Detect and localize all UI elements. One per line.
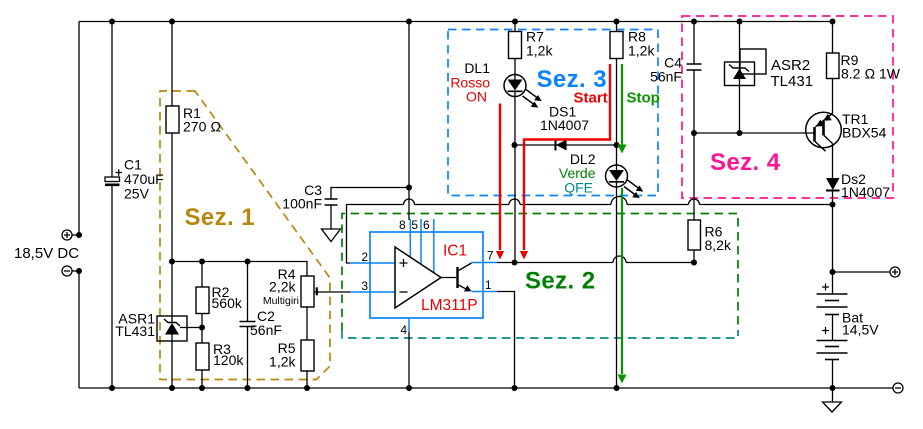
- svg-text:ASR2: ASR2: [771, 57, 810, 74]
- svg-text:TL431: TL431: [115, 323, 155, 339]
- svg-text:QFE: QFE: [564, 180, 593, 196]
- svg-text:1N4007: 1N4007: [540, 117, 589, 133]
- svg-text:Sez. 2: Sez. 2: [525, 268, 595, 295]
- svg-text:8: 8: [399, 218, 406, 232]
- svg-text:2: 2: [361, 250, 368, 264]
- svg-text:4: 4: [400, 323, 407, 337]
- svg-text:1: 1: [485, 278, 492, 292]
- svg-text:56nF: 56nF: [250, 322, 282, 338]
- svg-text:1,2k: 1,2k: [628, 43, 655, 59]
- svg-text:3: 3: [361, 279, 368, 293]
- svg-text:560k: 560k: [212, 295, 243, 311]
- svg-text:100nF: 100nF: [282, 196, 322, 212]
- svg-text:5: 5: [411, 218, 418, 232]
- svg-text:Stop: Stop: [627, 90, 660, 107]
- svg-text:Sez. 4: Sez. 4: [710, 149, 781, 176]
- svg-text:120k: 120k: [213, 352, 244, 368]
- svg-text:Sez. 3: Sez. 3: [537, 66, 607, 93]
- svg-text:IC1: IC1: [443, 243, 467, 260]
- svg-text:1,2k: 1,2k: [526, 43, 553, 59]
- svg-text:LM311P: LM311P: [421, 297, 478, 314]
- svg-text:18,5V DC: 18,5V DC: [14, 245, 79, 262]
- svg-text:1,2k: 1,2k: [269, 354, 296, 370]
- svg-text:6: 6: [423, 218, 430, 232]
- svg-text:BDX54: BDX54: [842, 125, 887, 141]
- svg-text:14,5V: 14,5V: [842, 322, 879, 338]
- svg-text:Multigiri: Multigiri: [263, 295, 299, 307]
- svg-text:7: 7: [487, 249, 494, 263]
- svg-text:8.2 Ω 1W: 8.2 Ω 1W: [841, 66, 901, 82]
- svg-text:270 Ω: 270 Ω: [183, 119, 221, 135]
- svg-text:8,2k: 8,2k: [705, 237, 732, 253]
- svg-text:1N4007: 1N4007: [841, 184, 890, 200]
- svg-text:Sez. 1: Sez. 1: [185, 204, 255, 231]
- svg-text:56nF: 56nF: [650, 69, 682, 85]
- svg-text:25V: 25V: [124, 186, 150, 202]
- svg-text:ON: ON: [466, 89, 487, 105]
- svg-text:TL431: TL431: [771, 73, 814, 90]
- svg-text:2,2k: 2,2k: [269, 279, 296, 295]
